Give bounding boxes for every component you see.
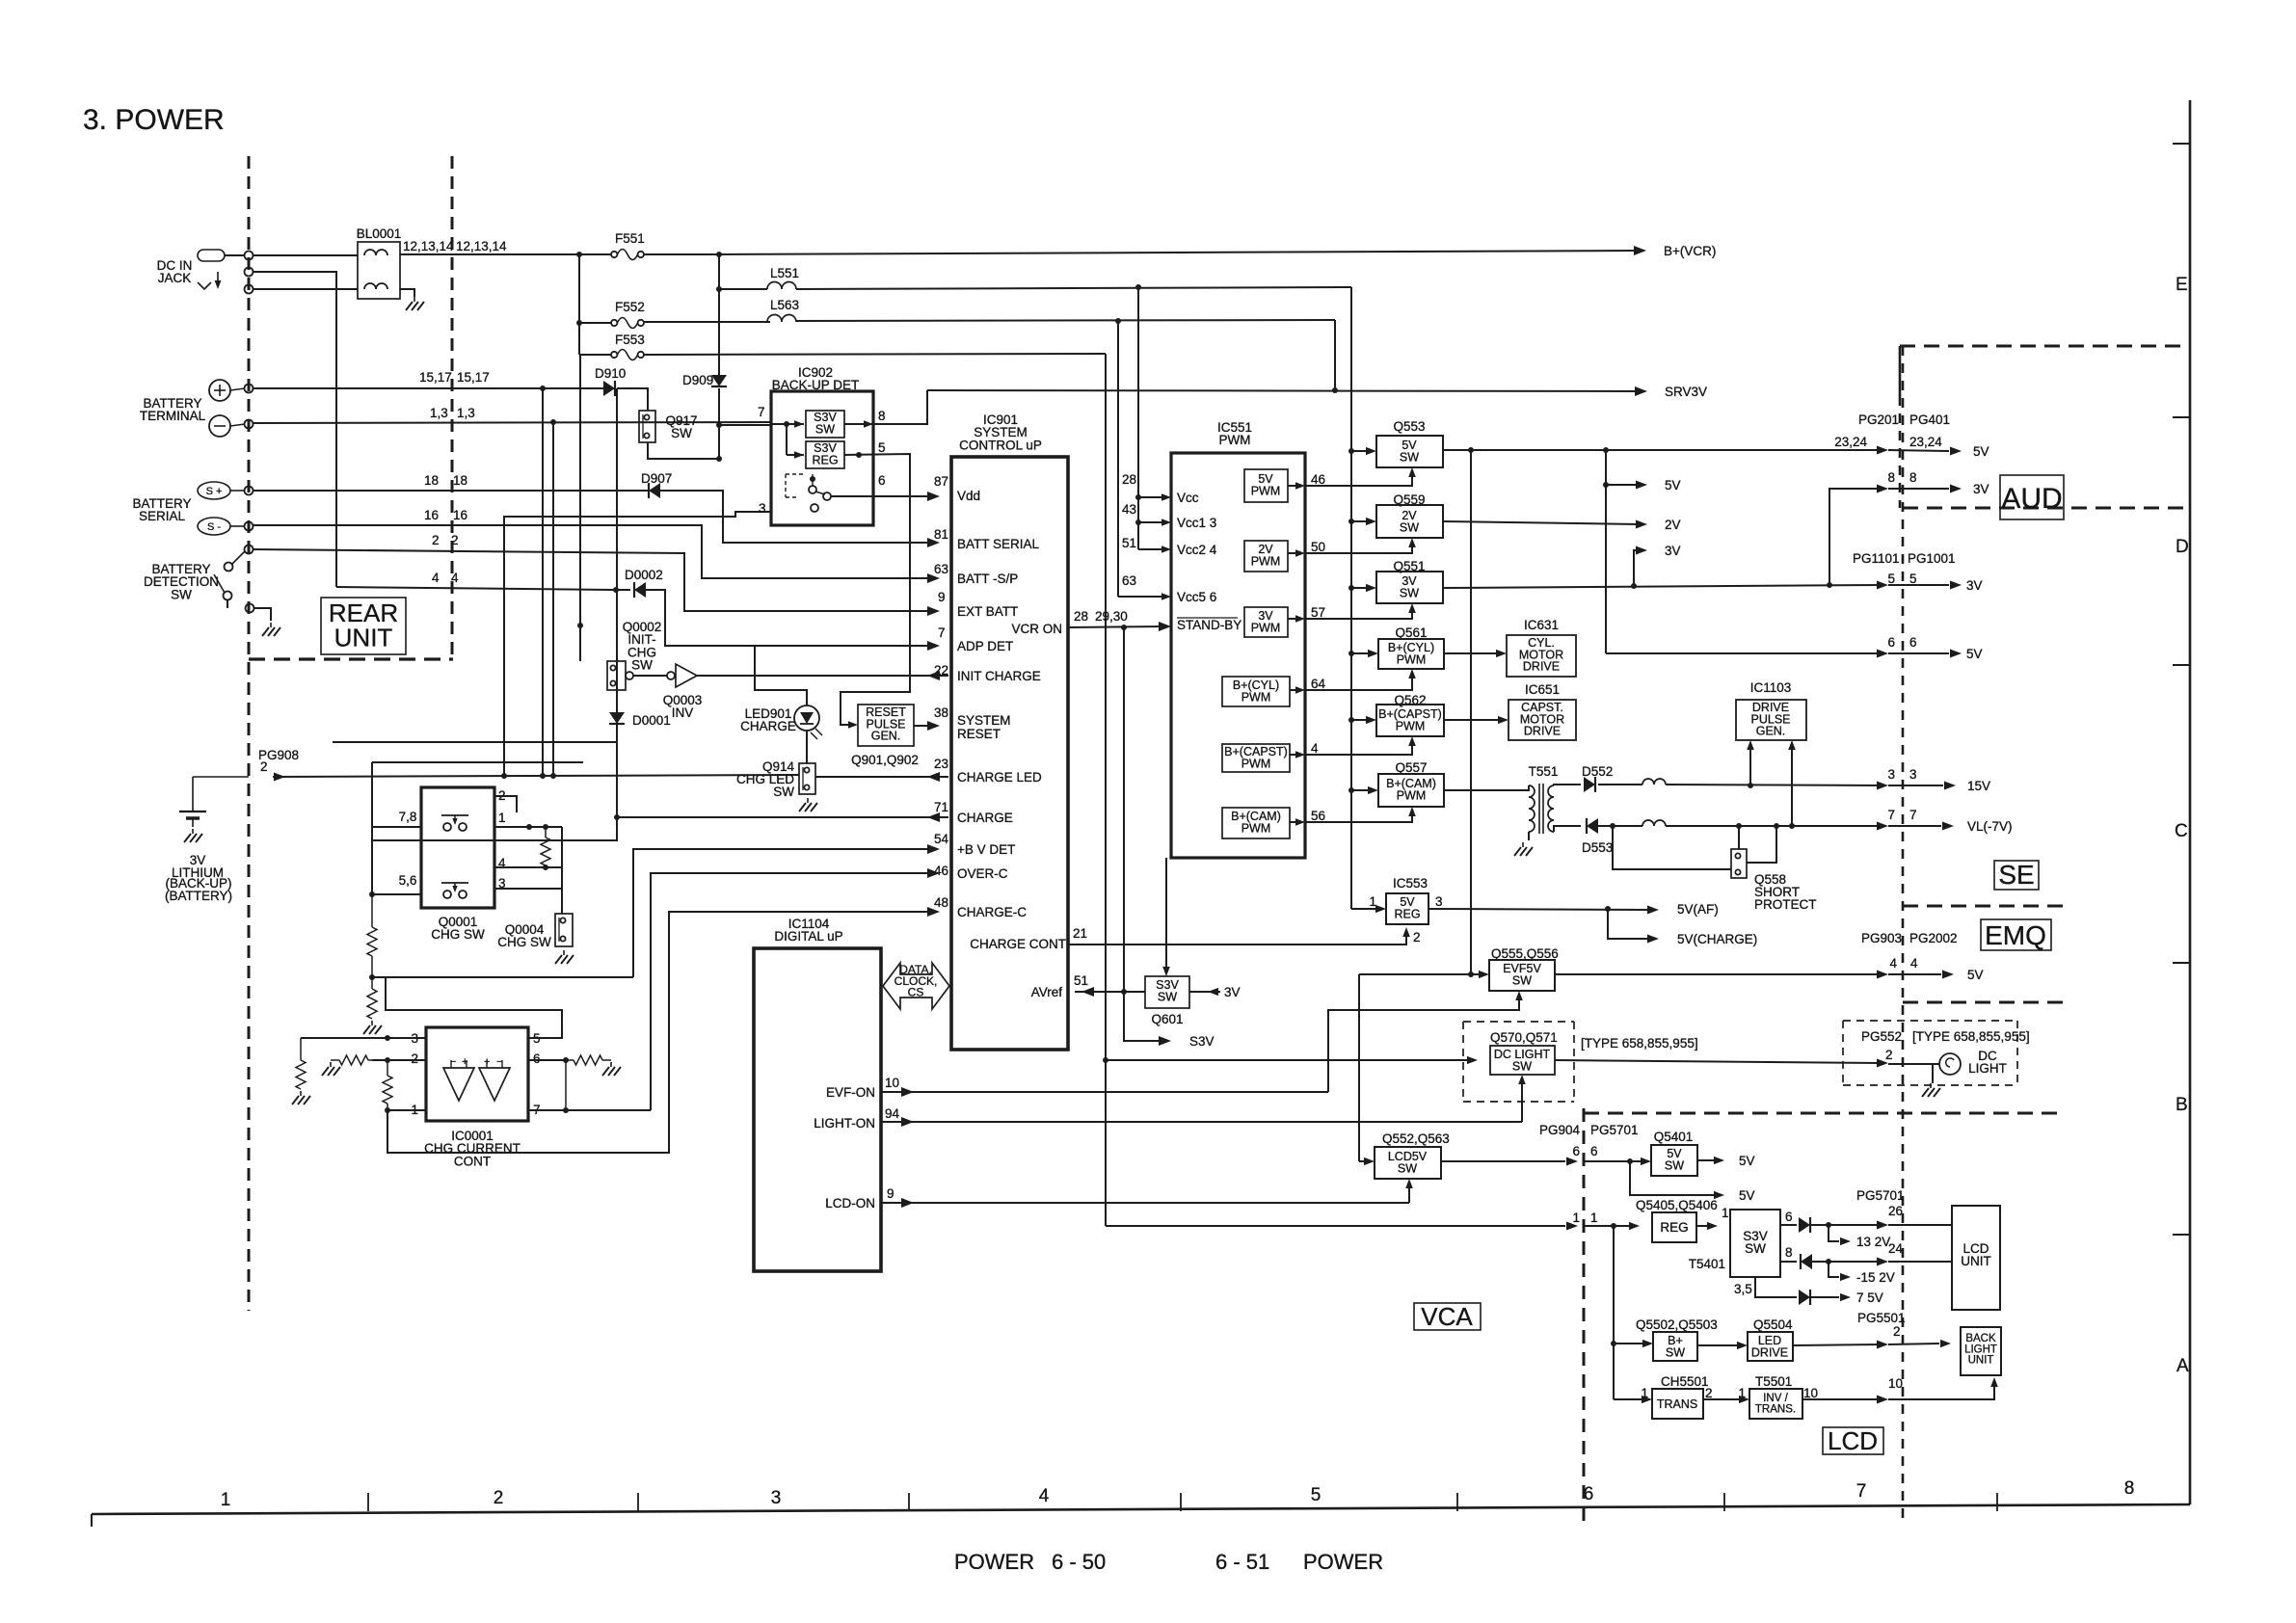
line filter BL0001 — [358, 242, 400, 299]
svg-text:REG: REG — [1660, 1220, 1688, 1235]
svg-text:6 - 51: 6 - 51 — [1215, 1550, 1269, 1574]
svg-text:23: 23 — [934, 757, 948, 771]
svg-text:16: 16 — [453, 508, 467, 522]
vertical resistor pin2 to pin1 — [387, 1060, 388, 1076]
svg-text:12,13,14: 12,13,14 — [403, 239, 454, 253]
wire pin6 to Vdd — [831, 495, 933, 497]
svg-text:REG: REG — [1394, 907, 1420, 920]
battery detection switch — [245, 545, 254, 554]
svg-text:D552: D552 — [1582, 764, 1613, 779]
bus branch Q551 — [1348, 585, 1354, 591]
svg-text:5: 5 — [1311, 1485, 1322, 1505]
svg-text:ADP DET: ADP DET — [957, 639, 1013, 653]
svg-text:SW: SW — [171, 587, 192, 601]
svg-text:(BATTERY): (BATTERY) — [165, 889, 232, 903]
S3V REG out pin5 riser to reset — [856, 452, 862, 458]
BL0001 ground — [400, 289, 414, 297]
wire det 2 stepped to EXT BATT — [253, 549, 933, 611]
svg-text:7: 7 — [758, 405, 765, 419]
inverter Q0003 INV — [667, 672, 675, 679]
riser F552 row to Vcc5 feed — [1117, 321, 1119, 597]
battery serial S+ terminal — [198, 482, 230, 499]
svg-text:1: 1 — [221, 1490, 231, 1510]
svg-text:PWM: PWM — [1251, 484, 1281, 497]
jack pin circles on border — [245, 252, 254, 260]
INV TRANS out — [1802, 1398, 1882, 1400]
IC0001 box — [426, 1027, 528, 1121]
svg-text:16: 16 — [424, 508, 439, 522]
svg-text:5V: 5V — [1739, 1188, 1755, 1203]
IC0001 pin6 wire resistor — [528, 1059, 566, 1061]
svg-text:OVER-C: OVER-C — [957, 866, 1008, 881]
svg-text:POWER: POWER — [954, 1550, 1034, 1574]
svg-text:DIGITAL uP: DIGITAL uP — [774, 929, 842, 944]
svg-text:GEN.: GEN. — [871, 730, 901, 743]
svg-text:18: 18 — [424, 473, 439, 488]
riser from 1,3 row down to PG908 row — [552, 422, 554, 776]
svg-text:SW: SW — [1666, 1345, 1685, 1359]
B+(VCR) arrow — [1634, 246, 1646, 255]
svg-text:PWM: PWM — [1241, 821, 1271, 835]
5V 2V short feed bus — [1605, 450, 1607, 653]
svg-text:B+(VCR): B+(VCR) — [1664, 244, 1716, 258]
DC light riser junction — [1103, 1057, 1108, 1063]
svg-text:AVref: AVref — [1031, 985, 1063, 999]
svg-text:2: 2 — [1705, 1386, 1713, 1400]
svg-text:SW: SW — [1665, 1158, 1684, 1172]
wire jack sleeve to BL0001 — [253, 288, 358, 290]
DC LIGHT lamp — [1888, 1063, 1939, 1065]
svg-text:15,17: 15,17 — [419, 370, 452, 385]
bus branch Q561 — [1348, 651, 1354, 656]
svg-text:CONTROL uP: CONTROL uP — [959, 438, 1042, 452]
svg-text:18: 18 — [453, 473, 467, 488]
PG dashed column — [1902, 346, 1905, 1525]
LCD-ON wire — [881, 1202, 1409, 1204]
AUD dashed border top — [1899, 346, 1902, 396]
svg-text:6 - 50: 6 - 50 — [1052, 1550, 1106, 1574]
wire 4 to D0002 — [336, 587, 630, 590]
PG552 dashed box — [1843, 1020, 2017, 1022]
inductor after D553 — [1642, 820, 1666, 826]
page right border — [2189, 100, 2192, 1504]
svg-text:D: D — [2176, 537, 2189, 557]
svg-text:SW: SW — [1400, 450, 1419, 464]
3V lithium backup battery — [192, 777, 194, 811]
svg-text:7,8: 7,8 — [399, 810, 417, 824]
svg-text:CH5501: CH5501 — [1661, 1374, 1709, 1389]
svg-text:TERMINAL: TERMINAL — [140, 409, 206, 423]
svg-text:4: 4 — [1889, 956, 1897, 971]
svg-text:SW: SW — [815, 422, 835, 436]
riser F553 down to Q0002 — [579, 355, 581, 661]
svg-text:DRIVE: DRIVE — [1523, 660, 1560, 674]
IC0001 pin1 wire — [387, 1109, 426, 1111]
AVref wire — [1075, 991, 1145, 993]
battery terminal plus — [209, 380, 230, 401]
svg-text:UNIT: UNIT — [334, 623, 393, 652]
EMQ label box — [1981, 919, 2051, 950]
EMQ bottom border — [1903, 1001, 2067, 1004]
Q5401 out 5V — [1697, 1159, 1715, 1161]
wire Q559 out 2V — [1443, 521, 1639, 524]
wire Q562 to IC651 — [1444, 719, 1499, 721]
battery serial S- terminal — [198, 518, 230, 535]
svg-text:PG401: PG401 — [1909, 412, 1950, 427]
svg-text:PWM: PWM — [1251, 554, 1281, 568]
svg-text:Q561: Q561 — [1395, 625, 1427, 640]
B+(CAM) PWM inner box — [1222, 808, 1290, 838]
svg-text:UNIT: UNIT — [1968, 1355, 1994, 1367]
wire riser to REG row — [1106, 1225, 1565, 1227]
svg-text:7: 7 — [1887, 808, 1895, 822]
svg-text:2: 2 — [260, 759, 268, 774]
svg-text:CHG SW: CHG SW — [431, 927, 485, 942]
svg-text:PG5701: PG5701 — [1590, 1123, 1639, 1137]
svg-text:Q553: Q553 — [1393, 419, 1425, 434]
DC LIGHT SW out to PG552 — [1555, 1060, 1882, 1063]
AUD dashed border column — [1899, 396, 1902, 508]
svg-text:F553: F553 — [615, 333, 645, 347]
wire Q0001 pin3 — [494, 888, 562, 890]
SRV3V bus wire — [927, 390, 1639, 391]
svg-text:63: 63 — [934, 562, 948, 576]
riser +B V DET — [633, 849, 933, 977]
svg-text:INV /: INV / — [1763, 1393, 1788, 1404]
svg-text:8: 8 — [1785, 1245, 1793, 1260]
svg-text:D910: D910 — [595, 366, 626, 381]
svg-text:PWM: PWM — [1241, 757, 1271, 770]
svg-text:LIGHT-ON: LIGHT-ON — [814, 1116, 875, 1131]
svg-text:VL(-7V): VL(-7V) — [1967, 819, 2013, 834]
zone tick D — [2173, 416, 2190, 418]
svg-text:INIT CHARGE: INIT CHARGE — [957, 669, 1041, 683]
svg-text:6: 6 — [878, 473, 886, 488]
transistor Q558 SHORT PROTECT — [1738, 826, 1740, 849]
svg-text:56: 56 — [1311, 809, 1325, 823]
svg-text:81: 81 — [934, 527, 948, 542]
svg-text:6: 6 — [1785, 1210, 1793, 1224]
DATA CLOCK CS bus arrow — [883, 963, 949, 1009]
resistor below — [367, 989, 377, 1019]
wire D0002 stepped to ADP DET — [646, 590, 933, 646]
svg-text:UNIT: UNIT — [1961, 1254, 1991, 1268]
svg-text:CHG SW: CHG SW — [497, 935, 551, 949]
IC902 switch symbol — [786, 473, 806, 475]
svg-text:T551: T551 — [1529, 764, 1559, 779]
zone tick A — [2173, 1234, 2190, 1236]
svg-text:7: 7 — [1909, 808, 1917, 822]
svg-text:5: 5 — [1909, 572, 1917, 586]
IC0001 bottom loop to CHARGE-C — [387, 912, 933, 1153]
svg-text:Q5504: Q5504 — [1753, 1317, 1793, 1332]
IC553 out 5V(CHARGE) — [1608, 909, 1652, 939]
svg-text:9: 9 — [938, 590, 946, 604]
svg-text:46: 46 — [934, 864, 948, 878]
riser L551 row to Vcc feeds — [1137, 287, 1139, 549]
svg-text:Vdd: Vdd — [957, 489, 980, 503]
riser D910 node down to charge row — [616, 388, 618, 817]
EVF-ON wire — [881, 1091, 1328, 1093]
svg-text:8: 8 — [1909, 470, 1917, 485]
svg-text:SW: SW — [1512, 973, 1532, 987]
svg-text:IC553: IC553 — [1393, 876, 1428, 891]
transistor Q570,Q571 DC LIGHT SW dashed enclosure — [1463, 1021, 1574, 1023]
svg-text:SW: SW — [1512, 1059, 1532, 1073]
S3V SW Q601 box — [1145, 976, 1189, 1008]
svg-text:15V: 15V — [1967, 779, 1990, 793]
svg-text:LCD-ON: LCD-ON — [825, 1196, 875, 1211]
LCD label box — [1823, 1427, 1883, 1454]
13 2V branch — [1829, 1225, 1839, 1241]
B+(CAPST) PWM inner box — [1222, 744, 1290, 772]
VCA label box — [1414, 1303, 1481, 1330]
svg-text:CHARGE: CHARGE — [957, 811, 1013, 825]
svg-text:INV: INV — [672, 705, 694, 720]
svg-text:SRV3V: SRV3V — [1665, 385, 1707, 399]
svg-text:EVF-ON: EVF-ON — [826, 1085, 875, 1100]
svg-text:1: 1 — [498, 811, 506, 825]
riser L563 row to SRV3V row — [1334, 320, 1336, 390]
svg-text:PG904: PG904 — [1539, 1123, 1581, 1137]
svg-text:VCR ON: VCR ON — [1011, 622, 1062, 636]
svg-text:2V: 2V — [1665, 518, 1681, 532]
svg-text:50: 50 — [1311, 540, 1325, 554]
svg-text:3. POWER: 3. POWER — [83, 104, 225, 136]
5V feed bus vertical — [1350, 287, 1352, 909]
svg-text:4: 4 — [432, 571, 440, 585]
transistor Q917 SW — [639, 411, 655, 442]
svg-text:6: 6 — [1584, 1484, 1594, 1504]
svg-text:D909: D909 — [682, 373, 713, 387]
svg-text:10: 10 — [885, 1076, 899, 1090]
svg-text:GEN.: GEN. — [1756, 725, 1786, 738]
svg-text:Q555,Q556: Q555,Q556 — [1491, 946, 1559, 961]
T551 secondary wires — [1554, 785, 1581, 785]
svg-text:CONT: CONT — [454, 1154, 491, 1168]
IC0001 pin2 wire resistor — [372, 1059, 426, 1061]
AUD label box — [2000, 475, 2064, 519]
svg-text:4: 4 — [1910, 956, 1918, 971]
wire D0001 row — [333, 726, 617, 742]
SE label box — [1994, 861, 2039, 890]
svg-text:CHARGE CONT: CHARGE CONT — [970, 937, 1066, 951]
svg-text:VCA: VCA — [1421, 1302, 1473, 1331]
wire bus to PG1101 pin6 5V — [1606, 652, 1882, 654]
svg-text:T5501: T5501 — [1755, 1374, 1792, 1389]
svg-text:5,6: 5,6 — [399, 873, 417, 888]
svg-text:1: 1 — [1590, 1211, 1598, 1225]
svg-text:5V(AF): 5V(AF) — [1677, 902, 1719, 917]
svg-text:POWER: POWER — [1303, 1550, 1383, 1574]
LED901 cathode to Q914 — [806, 731, 808, 763]
svg-text:DRIVE: DRIVE — [1524, 725, 1561, 738]
svg-text:2: 2 — [432, 533, 440, 547]
svg-text:8: 8 — [2124, 1478, 2135, 1499]
zone tick C — [2173, 664, 2190, 666]
S3V SW out to pin8 — [864, 420, 873, 428]
svg-text:Q557: Q557 — [1395, 760, 1427, 775]
wire Q0001 pin2 — [494, 796, 517, 812]
svg-text:5V: 5V — [1967, 968, 1984, 982]
svg-text:TRANS.: TRANS. — [1755, 1403, 1796, 1415]
svg-text:1,3: 1,3 — [457, 406, 475, 420]
svg-text:PWM: PWM — [1397, 652, 1427, 666]
svg-text:D553: D553 — [1582, 840, 1613, 855]
wire to DC LIGHT SW — [1106, 1059, 1468, 1061]
svg-text:3: 3 — [1887, 767, 1895, 782]
svg-text:CHARGE-C: CHARGE-C — [957, 905, 1027, 919]
wire Q561 to IC631 — [1444, 652, 1497, 654]
bus branch Q557 — [1348, 787, 1354, 793]
svg-text:43: 43 — [1122, 502, 1136, 517]
EVF5V out to PG903 — [1555, 973, 1882, 975]
IC0001 pin5 wire — [386, 977, 562, 1038]
svg-text:SW: SW — [1158, 990, 1177, 1003]
svg-text:JACK: JACK — [158, 271, 192, 285]
short 5V arrow — [1606, 484, 1639, 486]
svg-text:-15 2V: -15 2V — [1856, 1270, 1895, 1285]
svg-text:8: 8 — [1887, 470, 1895, 485]
svg-text:SE: SE — [1998, 860, 2034, 890]
svg-text:Vcc1 3: Vcc1 3 — [1177, 516, 1216, 530]
pin6 riser to pin7 — [565, 1060, 567, 1110]
IC551 box — [1171, 453, 1305, 858]
svg-text:STAND-BY: STAND-BY — [1177, 618, 1241, 632]
wire battery minus 1,3 to IC902 pin7 node — [253, 422, 771, 423]
svg-text:4: 4 — [1039, 1486, 1050, 1506]
3V PWM inner box — [1244, 607, 1288, 637]
svg-text:PWM: PWM — [1251, 621, 1281, 634]
svg-text:IC651: IC651 — [1525, 682, 1560, 697]
SRV3V arrow — [1635, 386, 1647, 396]
IC901 box — [951, 457, 1068, 1050]
left riser and resistor — [300, 1038, 302, 1060]
svg-text:71: 71 — [934, 800, 948, 814]
svg-text:D0002: D0002 — [625, 568, 663, 582]
LCD border dashed vertical — [1583, 1108, 1586, 1523]
svg-text:4: 4 — [451, 571, 459, 585]
svg-text:Vcc2 4: Vcc2 4 — [1177, 543, 1217, 557]
LED901 anode wire — [755, 646, 807, 705]
svg-text:Q601: Q601 — [1151, 1012, 1183, 1026]
LIGHT-ON wire — [881, 1121, 1522, 1123]
svg-text:SW: SW — [1398, 1161, 1417, 1175]
svg-text:5V: 5V — [1739, 1154, 1755, 1168]
T5401 S3V SW box — [1730, 1210, 1780, 1277]
svg-text:SW: SW — [1745, 1241, 1766, 1256]
svg-text:3V: 3V — [1966, 578, 1983, 593]
svg-text:57: 57 — [1311, 605, 1325, 620]
svg-text:54: 54 — [934, 832, 949, 846]
resistor at Q0001 pin1 — [545, 827, 547, 838]
svg-text:PWM: PWM — [1396, 719, 1426, 732]
svg-text:26: 26 — [1888, 1204, 1903, 1218]
svg-text:BATT SERIAL: BATT SERIAL — [957, 537, 1040, 551]
svg-text:21: 21 — [1073, 926, 1087, 941]
wire jack tip to BL0001 — [253, 254, 358, 256]
svg-text:S3V: S3V — [1189, 1034, 1215, 1049]
svg-text:L551: L551 — [770, 266, 799, 280]
svg-text:PG552: PG552 — [1861, 1029, 1902, 1044]
wire Q914 to CHARGE LED pin — [815, 776, 948, 778]
svg-text:51: 51 — [1122, 536, 1136, 550]
svg-text:1: 1 — [1722, 1206, 1729, 1220]
svg-text:F551: F551 — [615, 231, 645, 246]
svg-text:PG201: PG201 — [1858, 412, 1899, 427]
svg-text:28: 28 — [1074, 609, 1088, 624]
bus branch Q553 — [1348, 448, 1354, 454]
wire Q551 out 3V to PG1101 — [1443, 585, 1882, 588]
svg-text:RESET: RESET — [957, 727, 1001, 741]
svg-text:51: 51 — [1074, 973, 1088, 988]
wire S- 16 stepped to BATT -S/P — [253, 525, 933, 578]
svg-text:64: 64 — [1311, 677, 1326, 691]
svg-text:2: 2 — [411, 1051, 418, 1066]
wire Q0001 5,6 left — [372, 893, 421, 895]
svg-text:PWM: PWM — [1397, 788, 1427, 802]
riser from 15,17 node down to PG908 row — [542, 388, 544, 776]
svg-text:46: 46 — [1311, 472, 1325, 487]
diode D0001 — [616, 690, 618, 712]
svg-text:SW: SW — [631, 658, 653, 673]
BACK LIGHT UNIT box — [1961, 1327, 2001, 1375]
5V PWM inner box — [1244, 469, 1288, 502]
LED DRIVE out — [1793, 1344, 1882, 1345]
ruler ticks — [367, 1493, 369, 1511]
battery terminal minus — [209, 415, 230, 437]
svg-text:L563: L563 — [770, 298, 799, 312]
REG out to S3V SW — [1696, 1225, 1708, 1227]
svg-text:7: 7 — [938, 625, 946, 640]
IC553 out 5V(AF) — [1428, 909, 1652, 910]
svg-text:AUD: AUD — [2001, 483, 2062, 515]
svg-text:IC1103: IC1103 — [1750, 680, 1792, 695]
riser Q553 node to EVF5V — [1470, 450, 1472, 974]
riser 3V to AUD pin8 — [1829, 489, 1882, 585]
svg-text:SW: SW — [773, 785, 794, 799]
svg-text:2: 2 — [1885, 1048, 1893, 1062]
svg-text:38: 38 — [934, 705, 948, 720]
svg-text:28: 28 — [1122, 472, 1136, 487]
wire D907 stepped to BATT SERIAL — [660, 491, 933, 543]
bus branch Q562 — [1348, 717, 1354, 723]
IC1104 box — [754, 948, 881, 1271]
svg-text:10: 10 — [1888, 1376, 1903, 1391]
riser VCR node down to AVref — [1123, 627, 1125, 992]
svg-text:3: 3 — [1435, 894, 1443, 909]
bus branch Q559 — [1348, 519, 1354, 524]
IC0001 pin7 wire to OVER-C — [528, 1109, 651, 1111]
svg-text:SW: SW — [1400, 520, 1419, 534]
wire RESET PULSE GEN out — [914, 725, 933, 727]
svg-text:T5401: T5401 — [1689, 1257, 1725, 1271]
svg-text:Q552,Q563: Q552,Q563 — [1382, 1131, 1450, 1146]
svg-text:A: A — [2176, 1356, 2189, 1376]
svg-text:LIGHT: LIGHT — [1968, 1061, 2007, 1076]
svg-text:LIGHT: LIGHT — [1964, 1344, 1997, 1355]
CHARGE CONT wire — [1068, 933, 1406, 945]
IC902 box — [771, 391, 873, 525]
zone tick E top — [2173, 143, 2190, 145]
svg-text:EMQ: EMQ — [1985, 920, 2046, 950]
svg-text:63: 63 — [1122, 573, 1136, 588]
svg-text:PG1001: PG1001 — [1908, 551, 1956, 566]
svg-text:13 2V: 13 2V — [1856, 1235, 1890, 1249]
riser IC902 pin3 path — [504, 512, 771, 776]
svg-text:5V: 5V — [1966, 647, 1983, 661]
wire pin8 up to SRV3V bus — [873, 390, 927, 424]
